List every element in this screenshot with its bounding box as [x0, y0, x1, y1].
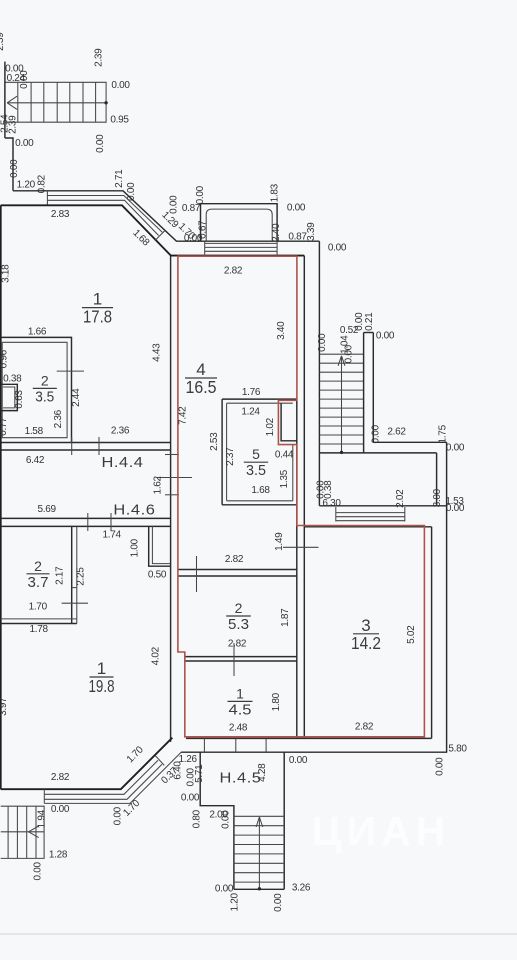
room 2 (3.5) door tick	[57, 370, 84, 372]
svg-text:Н.4.4: Н.4.4	[102, 454, 144, 471]
svg-text:19.8: 19.8	[89, 676, 115, 696]
dim tick 1.62 lower	[165, 494, 179, 496]
room 3 window jambs	[335, 507, 337, 522]
svg-text:4.5: 4.5	[229, 702, 252, 718]
svg-text:2: 2	[41, 372, 49, 388]
main top wall with diagonal	[1, 205, 305, 255]
window band tick top-left	[46, 191, 48, 206]
svg-text:0.80: 0.80	[192, 809, 203, 828]
apartment right wall upper single	[303, 256, 305, 739]
svg-text:1.35: 1.35	[279, 469, 290, 488]
door ticks in H44 top wall	[71, 437, 73, 455]
svg-text:1.75: 1.75	[438, 424, 449, 443]
apartment bottom wall black	[186, 737, 432, 739]
balcony window jambs	[204, 241, 206, 255]
svg-text:0.96: 0.96	[0, 349, 10, 368]
right outer wall upper	[318, 241, 320, 506]
apartment right wall lower inner	[296, 505, 298, 738]
svg-text:2.17: 2.17	[55, 566, 66, 585]
svg-text:0.00: 0.00	[446, 442, 465, 453]
svg-text:3.5: 3.5	[246, 463, 266, 479]
svg-text:5.02: 5.02	[406, 625, 417, 644]
room 2 (3.5) inner walls	[2, 342, 67, 437]
room 5.3 door dim line	[196, 556, 198, 592]
svg-text:2.83: 2.83	[51, 209, 70, 220]
wall stub left of staircase	[4, 62, 6, 138]
svg-text:0.00: 0.00	[51, 804, 70, 815]
svg-text:1.87: 1.87	[280, 608, 291, 627]
wall tick right	[283, 546, 319, 548]
svg-text:3.5: 3.5	[35, 389, 54, 405]
svg-text:0.21: 0.21	[364, 312, 375, 331]
wall column right of landing	[436, 453, 438, 506]
svg-text:2.53: 2.53	[209, 432, 220, 451]
bottom outer band line	[44, 752, 181, 803]
svg-text:1.00: 1.00	[130, 538, 141, 557]
svg-text:0.00: 0.00	[215, 884, 234, 895]
bottom window band line 2	[44, 764, 162, 799]
svg-text:2.39: 2.39	[0, 32, 6, 51]
svg-text:0.00: 0.00	[169, 195, 180, 214]
corridor H44 top wall line1	[1, 442, 171, 444]
svg-text:6.42: 6.42	[26, 455, 45, 466]
svg-text:1.70: 1.70	[29, 602, 48, 613]
bottom window band left tick	[43, 789, 45, 803]
svg-text:2.44: 2.44	[71, 388, 82, 407]
svg-text:0.00: 0.00	[446, 503, 465, 514]
svg-text:0.38: 0.38	[3, 373, 22, 384]
svg-text:0.82: 0.82	[37, 174, 48, 193]
svg-text:2.36: 2.36	[111, 426, 130, 437]
svg-text:2: 2	[34, 558, 42, 574]
svg-text:0.00: 0.00	[195, 185, 206, 204]
stairwell H45 right wall	[283, 752, 285, 889]
svg-text:1.74: 1.74	[102, 530, 121, 541]
window band line 3 top	[47, 200, 158, 235]
svg-text:3.26: 3.26	[292, 883, 311, 894]
room 4.5 top wall	[185, 656, 297, 658]
corridor H44 top wall line2	[1, 449, 171, 451]
svg-text:2.71: 2.71	[114, 169, 125, 188]
svg-text:1.76: 1.76	[242, 387, 261, 398]
room 2 (3.5) outer walls	[1, 337, 72, 442]
svg-text:0.00: 0.00	[273, 893, 284, 912]
svg-text:1.49: 1.49	[274, 532, 285, 551]
svg-text:0.00: 0.00	[289, 755, 308, 766]
svg-text:7.42: 7.42	[178, 406, 189, 425]
svg-text:0.38: 0.38	[323, 480, 334, 499]
room 2 (3.7) bottom wall	[1, 618, 77, 620]
svg-text:3.39: 3.39	[306, 222, 317, 241]
window band end tick on diagonal	[155, 230, 165, 241]
svg-text:5.3: 5.3	[228, 617, 249, 633]
svg-text:0.00: 0.00	[33, 862, 44, 881]
svg-text:2.40: 2.40	[271, 223, 282, 242]
wall jog below staircase	[5, 138, 13, 191]
svg-text:1.20: 1.20	[17, 180, 36, 191]
staircase bottom-left treads	[7, 806, 9, 858]
room 3 right wall	[431, 527, 433, 739]
window band line 2 top	[47, 196, 162, 233]
svg-text:0.00: 0.00	[19, 70, 30, 89]
svg-text:0.95: 0.95	[110, 115, 129, 126]
room 2 (3.7) door tick	[62, 602, 88, 604]
balcony outer walls	[201, 204, 278, 242]
svg-text:1.58: 1.58	[25, 426, 44, 437]
room 2 (3.7) right wall outer	[76, 526, 78, 623]
upper landing wall to outer corner	[373, 441, 446, 443]
svg-text:2.48: 2.48	[229, 723, 248, 734]
svg-text:0.00: 0.00	[328, 243, 347, 254]
shaft niche in room 5	[281, 403, 297, 441]
svg-text:4.43: 4.43	[152, 343, 163, 362]
svg-text:3.00: 3.00	[432, 488, 443, 507]
staircase bottom treads	[234, 815, 284, 817]
svg-text:0.00: 0.00	[371, 424, 382, 443]
right outer wall lower	[446, 442, 448, 752]
svg-text:3.7: 3.7	[28, 575, 49, 591]
svg-text:0.00: 0.00	[113, 806, 124, 825]
svg-text:14.2: 14.2	[351, 633, 381, 653]
dim line 1.62	[157, 477, 192, 479]
svg-text:0.87: 0.87	[288, 232, 307, 243]
corridor H46 bottom wall line2	[1, 525, 171, 527]
room 2 (3.5) shaft square outer	[1, 384, 18, 410]
stairwell H45 left wall	[200, 752, 234, 889]
staircase top-left outline	[5, 82, 106, 122]
staircase bottom arrow up	[258, 818, 260, 889]
gray separator line bottom	[0, 933, 517, 935]
staircase top-left walk line with arrow	[7, 102, 106, 104]
room 2 (3.5) shaft square inner	[3, 387, 15, 408]
svg-text:1.62: 1.62	[153, 475, 164, 494]
svg-text:Н.4.6: Н.4.6	[113, 502, 155, 519]
balcony inner rounded wall	[206, 209, 272, 241]
svg-text:5.80: 5.80	[448, 744, 467, 755]
room 5 inner walls	[227, 403, 293, 501]
svg-text:5.71: 5.71	[194, 764, 205, 783]
niche 0.50 walls	[149, 526, 171, 566]
svg-text:0.00: 0.00	[317, 333, 328, 352]
bottom window band line 1	[44, 760, 158, 794]
svg-text:2.36: 2.36	[53, 409, 64, 428]
room 3 top wall	[304, 526, 431, 528]
outer wall top corridor line with diagonal to room 4	[13, 191, 319, 241]
svg-text:2.37: 2.37	[225, 447, 236, 466]
svg-text:1.28: 1.28	[49, 850, 68, 861]
dim tick 1.62 upper	[165, 454, 179, 456]
svg-text:2.82: 2.82	[355, 722, 374, 733]
svg-text:5.69: 5.69	[37, 504, 56, 515]
red apartment boundary	[178, 256, 425, 737]
svg-text:3.97: 3.97	[0, 697, 9, 716]
stair landing bottom edge	[319, 452, 436, 454]
svg-text:5: 5	[252, 446, 260, 462]
bottom outer wall	[181, 751, 447, 753]
svg-text:3.18: 3.18	[1, 264, 12, 283]
svg-text:6.30: 6.30	[322, 498, 341, 509]
bottom wall door ticks	[203, 738, 205, 752]
svg-text:0.00: 0.00	[15, 138, 34, 149]
svg-text:Н.4.5: Н.4.5	[220, 770, 262, 787]
svg-text:1.24: 1.24	[241, 407, 260, 418]
bottom wall of room 1 with diagonal	[1, 738, 173, 790]
svg-text:4.02: 4.02	[151, 646, 162, 665]
svg-text:0.00: 0.00	[181, 793, 200, 804]
room 2 (3.7) right wall inner	[71, 526, 73, 623]
landing bottom wall	[319, 505, 446, 507]
svg-text:2.82: 2.82	[228, 639, 247, 650]
svg-text:2.39: 2.39	[7, 115, 18, 134]
svg-text:2: 2	[235, 600, 243, 616]
room 4.5 wall jog	[184, 652, 186, 661]
staircase bottom base line	[234, 888, 284, 890]
svg-text:1.68: 1.68	[251, 485, 270, 496]
svg-text:2.62: 2.62	[387, 426, 406, 437]
svg-text:0.00: 0.00	[111, 80, 130, 91]
room 5 outer walls	[222, 399, 297, 505]
svg-text:2.82: 2.82	[224, 266, 243, 277]
svg-text:1.20: 1.20	[230, 893, 241, 912]
left outer wall	[0, 205, 2, 789]
svg-text:0.00: 0.00	[9, 159, 20, 178]
svg-text:3.40: 3.40	[276, 321, 287, 340]
staircase bottom-left outline	[1, 806, 44, 858]
svg-text:1.78: 1.78	[29, 624, 48, 635]
staircase right flight treads	[319, 353, 363, 355]
svg-text:ЦИАН: ЦИАН	[312, 808, 451, 854]
svg-text:2.82: 2.82	[225, 554, 244, 565]
svg-text:4.28: 4.28	[257, 763, 268, 782]
svg-text:1.80: 1.80	[271, 692, 282, 711]
room 3 window band	[336, 512, 405, 514]
svg-text:16.5: 16.5	[186, 377, 217, 397]
stair core wall outer	[372, 333, 374, 443]
staircase bottom-left walk line with arrow	[1, 831, 44, 833]
svg-text:2.02: 2.02	[395, 489, 406, 508]
staircase right flight arrow up	[341, 357, 343, 453]
stair core wall inner	[363, 333, 365, 453]
door ticks in H46 bottom wall	[87, 513, 89, 531]
svg-text:0.00: 0.00	[95, 134, 106, 153]
svg-text:0.00: 0.00	[221, 810, 232, 829]
svg-text:2.39: 2.39	[94, 48, 105, 67]
svg-text:0.63: 0.63	[14, 390, 25, 409]
svg-text:1.02: 1.02	[265, 417, 276, 436]
svg-text:0.77: 0.77	[0, 417, 9, 436]
svg-text:0.00: 0.00	[287, 203, 306, 214]
room 4.5 dim line 2.82	[233, 643, 235, 676]
svg-text:0.00: 0.00	[435, 757, 446, 776]
balcony door window band	[205, 242, 277, 244]
svg-text:17.8: 17.8	[83, 307, 112, 327]
svg-text:1.94: 1.94	[37, 809, 48, 828]
svg-text:1.66: 1.66	[28, 327, 47, 338]
svg-text:1: 1	[236, 685, 244, 701]
staircase top-left treads	[17, 82, 19, 122]
svg-text:2.82: 2.82	[51, 772, 70, 783]
room 5.3 top wall	[178, 569, 297, 571]
bottom window band end tick	[155, 756, 164, 766]
stair core top cap	[364, 332, 374, 334]
svg-text:0.00: 0.00	[126, 182, 137, 201]
svg-text:0.50: 0.50	[148, 570, 167, 581]
svg-text:0.00: 0.00	[376, 331, 395, 342]
svg-text:1.83: 1.83	[270, 183, 281, 202]
svg-text:0.67: 0.67	[198, 220, 209, 239]
svg-text:0.44: 0.44	[275, 450, 294, 461]
svg-text:0.00: 0.00	[344, 344, 355, 363]
corridor H46 bottom wall line1	[1, 517, 171, 519]
svg-text:2.25: 2.25	[76, 567, 87, 586]
room 1 right wall	[170, 256, 172, 742]
